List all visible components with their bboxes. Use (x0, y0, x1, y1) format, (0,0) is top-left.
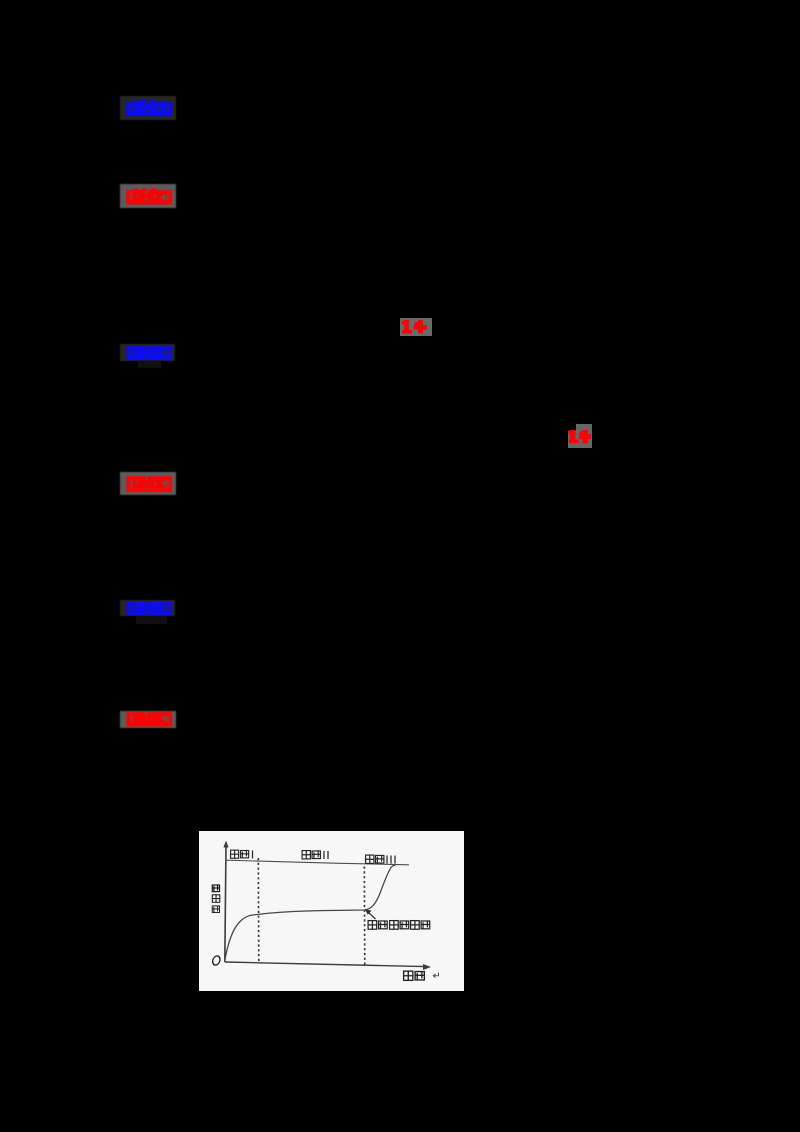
blue label 3 (120, 600, 175, 621)
blue label 1 [analysis] (120, 96, 176, 125)
chart: seed water-uptake figure (199, 831, 464, 996)
x axis label: time (404, 971, 425, 980)
top guide line (226, 860, 409, 865)
stage III label (366, 855, 395, 863)
annotation text: radicle breaks seed coat (368, 921, 430, 930)
y axis label (vertical) (212, 885, 219, 892)
y axis (225, 845, 226, 962)
small red value 1 (400, 318, 432, 336)
dotted line stage II/III (363, 867, 366, 968)
dotted line stage I/II (257, 858, 260, 962)
faint remnant under blue label 2 (138, 361, 161, 368)
stage I label (231, 850, 253, 858)
return mark (433, 973, 438, 978)
annotation arrow (368, 912, 376, 920)
small red value 2 (576, 424, 592, 432)
faint remnant under blue label 3 (136, 616, 167, 624)
red label 1 [answer] (120, 184, 176, 213)
red label 3 (120, 711, 176, 733)
origin O (212, 956, 221, 965)
stage II label (302, 851, 328, 859)
x axis (225, 962, 425, 967)
main curve (225, 865, 396, 961)
red label 2 [answer] (120, 472, 176, 500)
blue label 2 [answer-head] (120, 344, 175, 366)
